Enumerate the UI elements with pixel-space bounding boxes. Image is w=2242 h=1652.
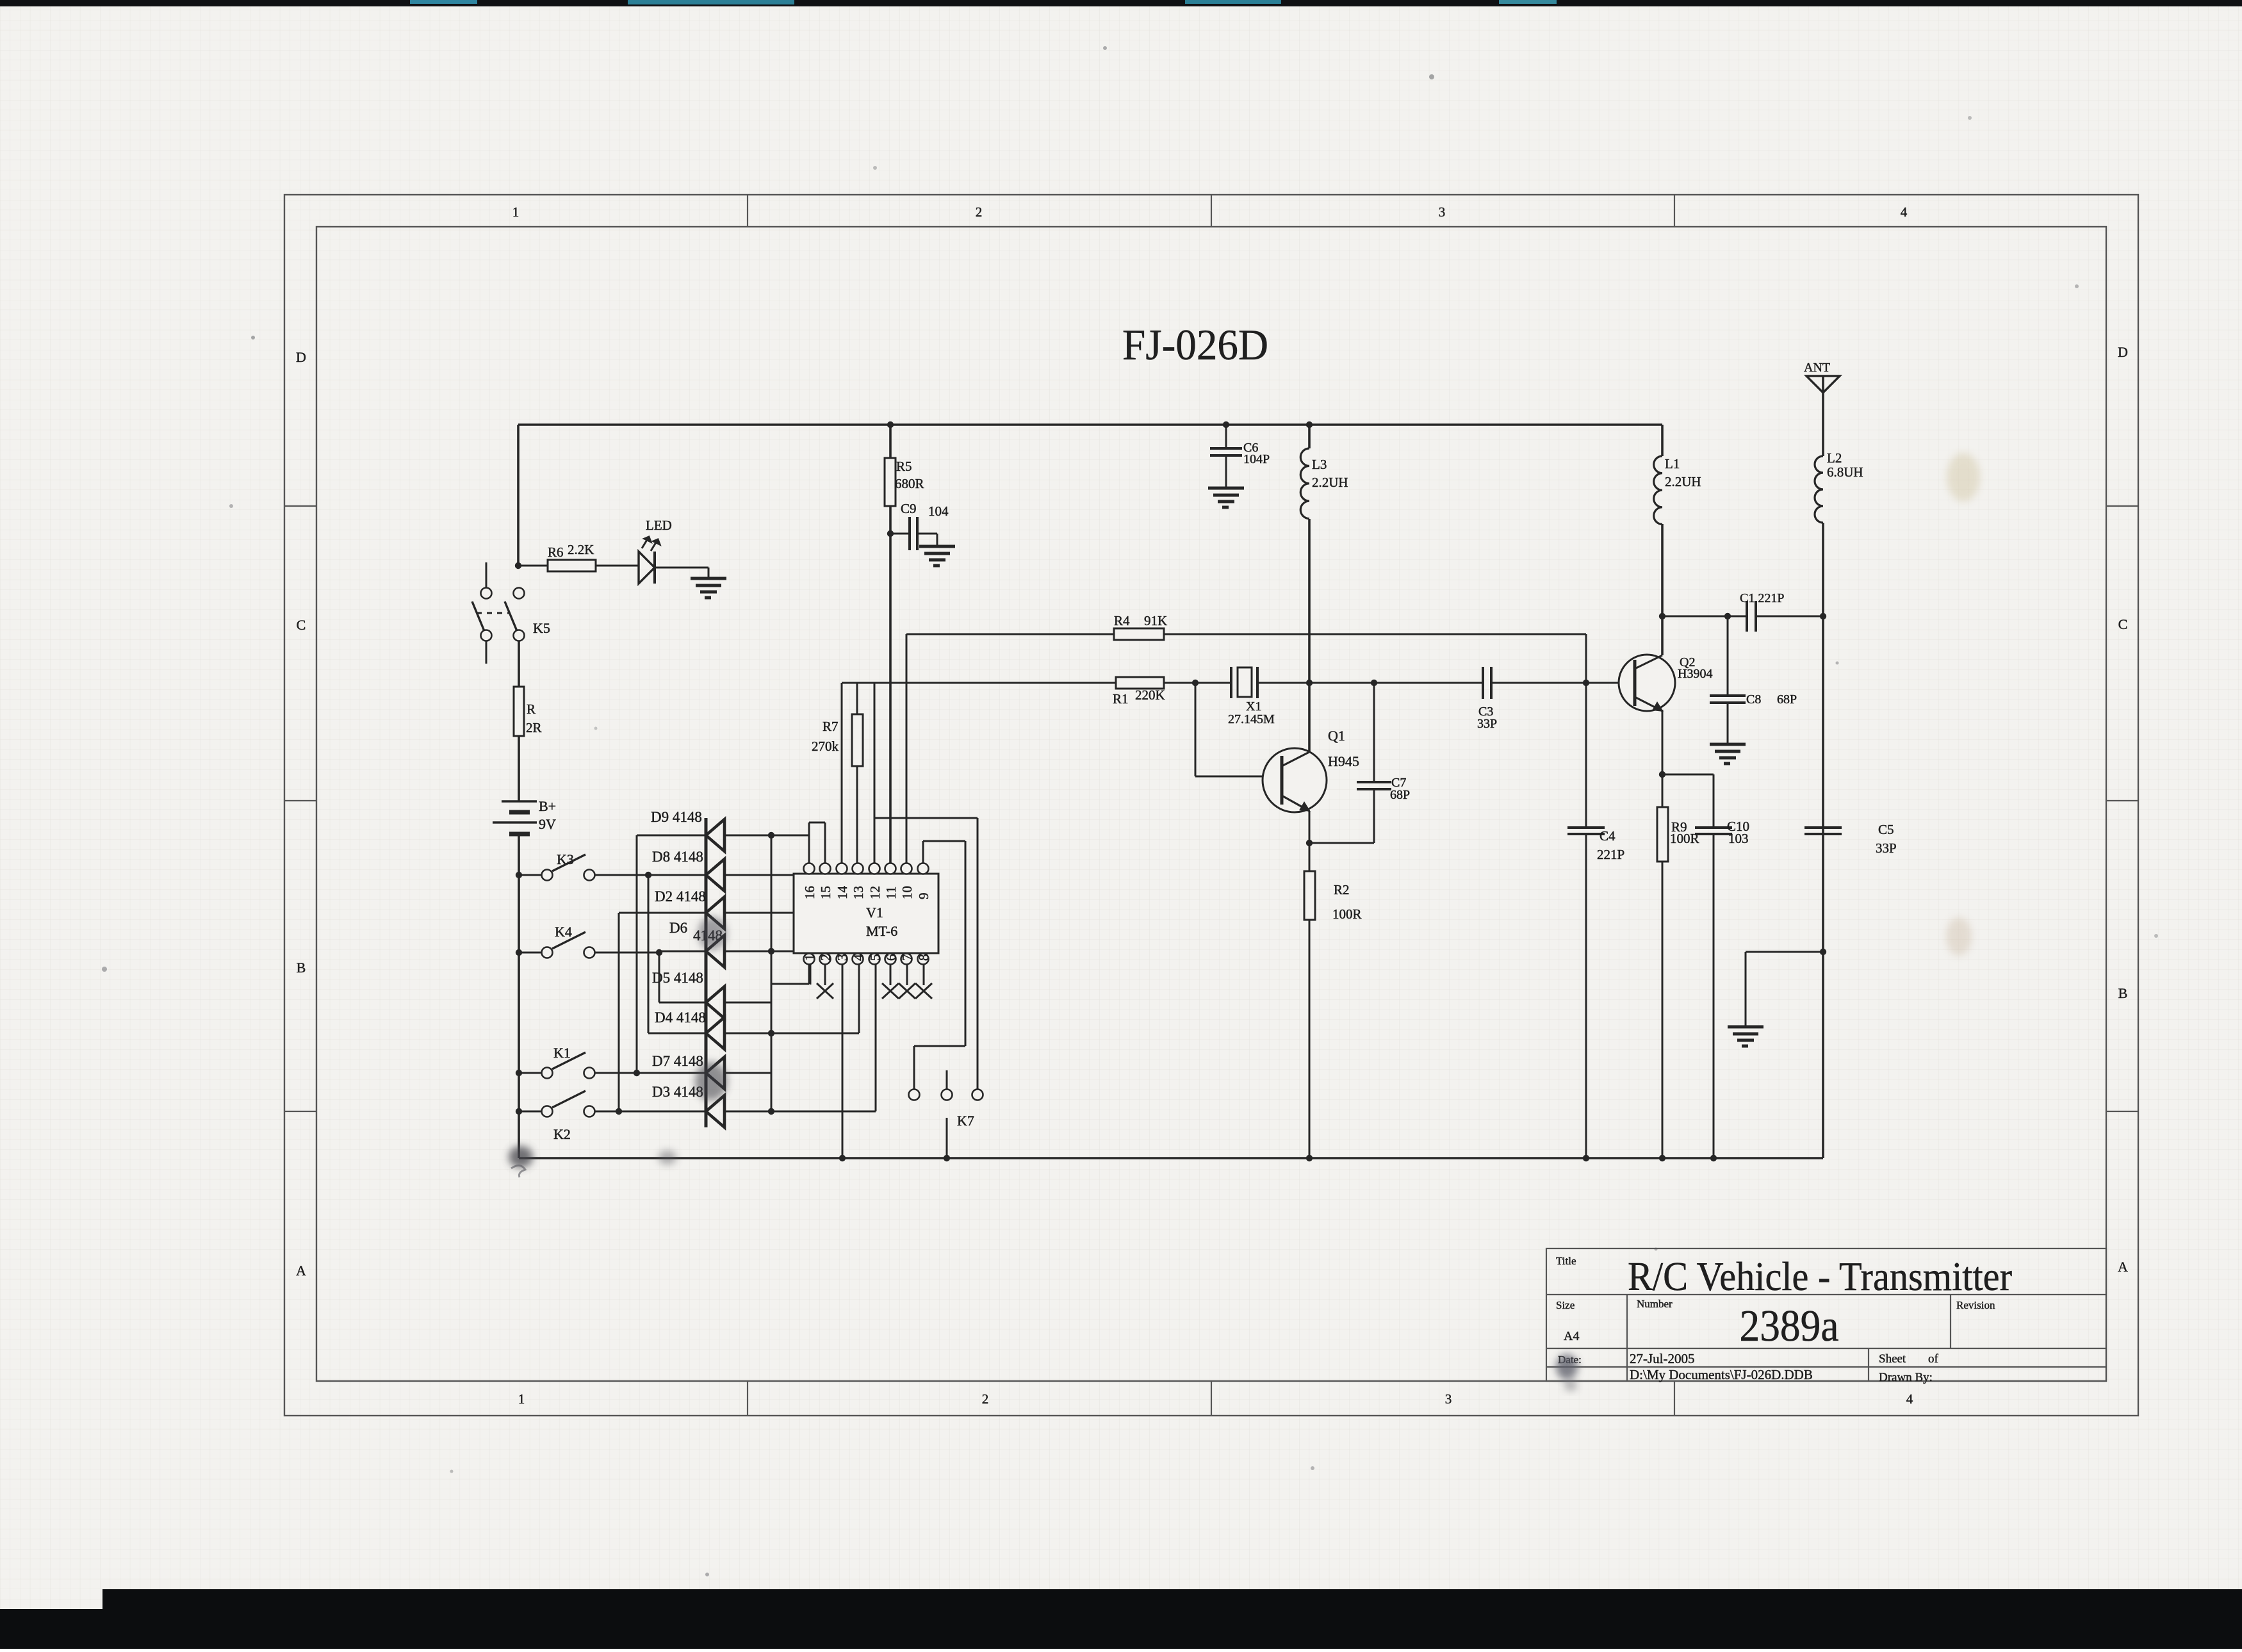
svg-text:ANT: ANT [1804,361,1830,375]
scan stain over D6 [698,917,726,950]
ink smudge on Date cell [1556,1354,1578,1380]
svg-text:9V: 9V [539,816,556,832]
wire D2-to-K2 vertical [618,913,620,1111]
wire nc pin stub [906,964,908,985]
svg-text:B+: B+ [539,798,556,814]
node D4 bus [768,1030,774,1036]
wire pin1 stub [808,964,810,984]
wire to R6 [518,565,548,567]
IC top pin 9 circle [918,863,929,874]
svg-text:91K: 91K [1144,613,1167,628]
node K4/D6 branch [656,949,662,956]
inner border frame [316,227,2106,1381]
node R5 top on rail [887,421,894,428]
resistor R9 [1657,807,1668,862]
resistor R2 [1304,871,1315,920]
svg-text:A: A [296,1263,306,1279]
wire D2 row left [619,912,706,914]
top scan bar [0,0,2242,6]
svg-text:12: 12 [867,886,883,899]
battery B+ 9V [493,801,537,834]
wire to K3 pole [519,874,541,876]
wire C1 net right [1756,616,1823,617]
IC top pin 10 circle [901,863,912,874]
K3 contact circle right [584,870,595,881]
svg-text:8: 8 [916,954,931,961]
svg-text:D: D [296,349,306,365]
wire emitter to C7 bottom [1309,842,1374,844]
svg-text:R7: R7 [822,719,839,734]
wire C4 branch down [1585,634,1587,828]
svg-text:100R: 100R [1670,831,1699,846]
smudge on rail [659,1150,676,1165]
K5 bottom contact left [481,630,492,641]
wire rail drop to K5 node [517,425,520,566]
diode D4 1N4148 [706,1017,724,1049]
svg-text:6: 6 [883,954,899,961]
K4 contact circle right [584,947,595,958]
svg-text:680R: 680R [895,476,924,491]
wire R7 top lead [856,683,858,714]
node C8 branch [1724,613,1731,619]
wire K3/D8 row [594,874,706,876]
IC top pin 13 circle [853,863,863,874]
svg-text:4: 4 [851,954,866,961]
svg-text:K3: K3 [557,851,574,867]
svg-text:15: 15 [818,886,833,899]
small smudge under Date [1564,1380,1577,1391]
wire R4 net to pin10 [906,634,908,863]
svg-text:221P: 221P [1597,847,1624,862]
resistor R6 [548,560,596,571]
zone tick bottom [1211,1381,1212,1416]
wire pin9 stub [922,841,924,863]
wire C10 to bottom rail [1713,834,1715,1158]
paper stain right [1947,453,1980,502]
wire R7 to pin13 [856,766,858,863]
IC top pin 14 circle [837,863,847,874]
svg-text:L2: L2 [1827,450,1842,466]
capacitor C6 [1210,448,1242,455]
svg-text:2: 2 [818,954,833,961]
wire pin12 branch to K7 [874,817,978,819]
wire Q1 base drop [1195,683,1197,776]
svg-text:2: 2 [982,1391,989,1407]
capacitor C5 [1804,828,1842,834]
transistor Q2 H3904 [1619,655,1675,711]
svg-text:33P: 33P [1477,717,1497,731]
svg-text:B: B [297,960,306,976]
wire ground stem [1745,952,1747,1026]
svg-text:Sheet: Sheet [1879,1352,1906,1366]
wire pin3 to bottom rail [842,964,844,1158]
wire R9 to bottom rail [1662,862,1664,1158]
zone tick right [2106,800,2138,801]
wire LED to ground [655,567,708,569]
node emitter/C7 [1306,840,1313,846]
ground after C9 [919,546,955,566]
svg-text:3: 3 [1445,1391,1452,1407]
svg-text:C: C [297,617,306,633]
IC bottom pin 6 circle [885,954,896,965]
wire to Q1 base [1195,776,1282,778]
svg-text:D5 4148: D5 4148 [652,970,703,986]
node C4 on bottom rail [1583,1155,1589,1161]
wire K1/D7 row [594,1072,706,1074]
svg-text:R6: R6 [548,544,564,560]
K7 middle stub above [946,1070,948,1089]
node battery column / K1 [516,1070,522,1076]
wire pin9 jog right [923,840,965,842]
K5 blade left [472,601,484,631]
IC top pin 11 circle [885,863,896,874]
svg-text:D:\My Documents\FJ-026D.DDB: D:\My Documents\FJ-026D.DDB [1630,1367,1813,1382]
node Q1 collector on X1 net [1306,680,1313,686]
zone tick top [1674,195,1675,227]
ground stem [708,568,710,577]
no-connect mark [882,983,899,999]
wire R4 net right [1164,634,1586,635]
svg-text:Q1: Q1 [1328,728,1345,744]
node R4 branch / C3 net [1583,680,1589,686]
svg-text:2389a: 2389a [1740,1302,1839,1351]
zone tick right [2106,505,2138,507]
wire K4 to D6 node [594,952,659,954]
K4 blade [552,932,585,949]
diode D8 1N4148 [706,859,724,891]
capacitor C3 [1483,667,1491,699]
zone tick bottom [1674,1381,1675,1416]
svg-text:C9: C9 [901,501,917,516]
svg-text:L3: L3 [1312,457,1327,472]
svg-text:33P: 33P [1876,840,1897,856]
node emitter/C10 branch [1659,771,1665,778]
wire nc pin stub [923,964,925,985]
ground under C6 [1208,488,1244,507]
svg-text:11: 11 [883,887,899,899]
wire top supply rail [518,423,1662,426]
K5 blade right [505,601,517,631]
svg-text:Revision: Revision [1956,1299,1995,1311]
svg-text:2.2UH: 2.2UH [1312,475,1348,490]
K5 open contact stub [486,562,487,587]
wire D9-to-K1 vertical [636,835,638,1073]
svg-text:R/C Vehicle - Transmitter: R/C Vehicle - Transmitter [1628,1254,2012,1299]
node battery column / K3 [516,872,522,878]
ground lower right [1728,1027,1763,1046]
wire D9 row left [637,835,706,837]
IC bottom pin 8 circle [918,954,929,965]
outer border frame [284,195,2138,1416]
wire K4-to-D5 vertical [659,953,660,1002]
K3 blade [552,855,585,871]
wire C8 top lead [1727,616,1729,694]
wire rail corner to L1 [1661,425,1664,456]
wire pin12 to R1 corner [874,683,876,863]
svg-text:68P: 68P [1777,692,1797,707]
K1 blade [552,1052,585,1069]
svg-text:C: C [2118,616,2128,632]
svg-text:L1: L1 [1665,456,1680,471]
node C1/antenna line [1820,613,1826,619]
diode D3 1N4148 [706,1095,724,1127]
IC bottom pin 3 circle [837,954,847,965]
node D9 bus [768,832,774,838]
svg-text:D2 4148: D2 4148 [655,888,706,904]
svg-text:Size: Size [1556,1299,1575,1311]
node K7 on bottom rail [944,1155,950,1161]
wire C6 top lead [1225,425,1227,447]
node D2/K2 [616,1108,622,1115]
wire C7 bottom lead [1373,789,1375,843]
svg-text:R1: R1 [1113,691,1129,707]
svg-text:A: A [2118,1259,2128,1275]
wire D3 row to pin5 [724,1111,876,1113]
wire C8 to ground [1727,703,1729,743]
resistor R1 [1116,677,1164,689]
wire R2 to bottom rail [1309,920,1311,1158]
capacitor C7 [1357,782,1391,789]
svg-text:2.2UH: 2.2UH [1665,474,1701,489]
antenna symbol [1806,376,1840,393]
svg-text:K4: K4 [555,924,572,940]
svg-text:2: 2 [976,204,983,220]
svg-text:68P: 68P [1390,788,1410,802]
wire antenna net down to rail end [1822,523,1824,1158]
wire D9 to pin16 bus [724,835,809,837]
wire D2 to IC [724,912,794,914]
svg-text:K7: K7 [957,1113,974,1129]
diode D5 1N4148 [706,986,724,1018]
title block frame [1546,1248,2106,1381]
node R9 on bottom rail [1659,1155,1665,1161]
K1 contact circle right [584,1068,595,1079]
svg-text:1: 1 [518,1391,525,1407]
IC top pin 12 circle [869,863,880,874]
node L1/C1/Q2 [1659,613,1665,619]
wire D5 row left [659,1002,706,1004]
node K3/D8 branch [645,872,651,878]
inductor L3 2.2UH [1300,448,1309,519]
wire L1 to C1 node and Q2 collector [1661,524,1664,655]
IC bottom pin 5 circle [869,954,880,965]
wire down to K7 right contact [977,818,979,1089]
node D3 bus [768,1108,774,1115]
capacitor C10 [1695,828,1732,834]
node C6 on rail [1223,421,1229,428]
wire to K2 pole [519,1111,541,1113]
svg-text:D9 4148: D9 4148 [651,809,702,825]
wire pin2 stub [824,964,826,985]
wire nc pin stub [890,964,892,985]
svg-text:270k: 270k [812,739,839,754]
K2 contact circle right [584,1106,595,1117]
svg-text:V1: V1 [866,904,883,920]
LED D-LED [639,552,655,584]
wire to K1 pole [519,1072,541,1074]
svg-text:R2: R2 [1334,882,1350,897]
wire K3-to-D4 vertical [648,875,650,1033]
wire K2/D3 row [594,1111,706,1113]
svg-text:103: 103 [1728,831,1749,846]
wire C3 to Q2 base [1491,682,1635,684]
wire pin16 stub [808,822,810,863]
svg-text:H945: H945 [1328,753,1359,769]
svg-text:4: 4 [1901,204,1908,220]
K5 bottom contact right [514,630,525,641]
diode D9 1N4148 [706,819,724,851]
node pin3 on bottom rail [839,1155,846,1161]
node C9 junction [887,530,894,537]
svg-text:2.2K: 2.2K [568,542,594,557]
wire bottom common rail [519,1157,1823,1159]
svg-text:D8 4148: D8 4148 [652,849,703,865]
capacitor C8 [1710,696,1746,703]
wire pin15 stub [824,822,826,863]
node C10 on bottom rail [1710,1155,1717,1161]
K7 contact circle right [972,1090,983,1100]
svg-text:16: 16 [802,886,817,899]
wire D6 row left [659,951,706,953]
capacitor C4 [1567,828,1605,834]
wire C7 top lead [1373,683,1375,781]
wire to K4 pole [519,952,541,954]
svg-text:13: 13 [851,886,866,899]
svg-text:R5: R5 [896,459,912,474]
svg-text:K5: K5 [533,620,550,636]
svg-text:7: 7 [899,954,915,961]
node D9/K1 [634,1070,640,1076]
K5 top contact right [514,588,525,599]
K7 contact circle middle [942,1090,953,1100]
svg-text:14: 14 [835,886,850,900]
wire R1/X1 net [842,682,1231,684]
wire D5 row right [724,1002,771,1004]
svg-text:C1 221P: C1 221P [1740,591,1784,605]
svg-text:B: B [2118,985,2128,1001]
svg-text:C8: C8 [1746,692,1761,707]
resistor R7 [852,714,863,766]
wire pin15-pin16 jog [809,822,825,824]
wire K5 to R [518,641,520,687]
wire pin9 drop [965,841,967,1046]
zone tick top [1211,195,1212,227]
wire R6 to LED [596,565,639,567]
wire battery negative to bottom rail [518,835,520,1158]
svg-text:FJ-026D: FJ-026D [1122,320,1268,369]
C9 ground stem [937,534,938,545]
zone tick left [284,505,316,507]
wire ground branch [1746,951,1823,953]
K2 contact circle left [542,1106,553,1117]
no-connect mark [899,983,915,999]
ground after LED [691,578,726,598]
wire L3 to Q1 collector [1308,519,1311,752]
transistor Q1 H945 [1263,748,1327,812]
zone tick top [747,195,748,227]
inductor L2 6.8UH [1815,456,1823,523]
wire C6 to ground [1225,455,1227,487]
wire C10 top lead [1713,774,1715,828]
svg-text:6.8UH: 6.8UH [1827,464,1863,480]
K3 contact circle left [542,870,553,881]
wire pin5 to D3 row [875,964,877,1111]
svg-text:of: of [1928,1352,1939,1366]
svg-text:Title: Title [1556,1255,1576,1267]
wire to C10 [1662,774,1714,776]
wire antenna lead [1822,376,1824,456]
capacitor C1 [1747,601,1756,632]
IC V1 MT-6 body [794,874,938,953]
svg-text:4: 4 [1906,1391,1913,1407]
K4 contact circle left [542,947,553,958]
zone tick left [284,1111,316,1112]
crystal X1 [1231,667,1257,698]
svg-text:2R: 2R [526,720,542,735]
svg-text:1: 1 [512,204,520,220]
K5 unused pole stub [486,641,487,664]
zone tick right [2106,1111,2138,1112]
svg-text:104P: 104P [1243,452,1270,466]
svg-text:27-Jul-2005: 27-Jul-2005 [1630,1351,1695,1366]
svg-text:9: 9 [916,893,931,900]
svg-text:3: 3 [835,954,850,961]
wire D6 drop to pin1 net [810,951,812,985]
svg-text:MT-6: MT-6 [866,923,897,939]
wire to C9 [890,533,910,535]
K7 contact circle left [909,1090,920,1100]
svg-text:D7 4148: D7 4148 [652,1053,703,1069]
wire R to battery [518,736,520,801]
svg-text:100R: 100R [1332,906,1362,922]
no-connect mark [915,983,932,999]
wire D6 row right [724,951,810,953]
svg-text:X1: X1 [1246,699,1261,714]
diode D7 1N4148 [706,1057,724,1089]
resistor R4 [1114,628,1164,640]
node X1 left / Q1 base branch [1192,680,1199,686]
wire matrix bus vertical [771,835,773,1111]
svg-text:27.145M: 27.145M [1228,712,1275,726]
IC bottom pin 2 circle [820,954,831,965]
svg-text:LED: LED [646,518,672,533]
no-connect pin2 [817,983,833,999]
svg-text:Drawn By:: Drawn By: [1879,1371,1933,1384]
svg-text:H3904: H3904 [1678,667,1712,681]
svg-text:A4: A4 [1564,1329,1579,1343]
K2 blade [552,1091,585,1108]
diode D6 1N4148 [706,935,724,967]
wire pin14 to R1 bus [841,683,843,863]
svg-text:D: D [2118,344,2128,360]
IC bottom pin 4 circle [853,954,863,965]
node L3 on rail [1306,421,1313,428]
IC top pin 16 circle [804,863,815,874]
wire Q2 emitter to R9 [1662,710,1664,807]
wire D4 row to pin4 [724,1033,859,1035]
node battery column / K4 [516,949,522,956]
LED arrows [642,537,660,551]
svg-text:R4: R4 [1114,613,1130,628]
wire C1 net left [1662,616,1747,617]
svg-text:C4: C4 [1600,828,1616,844]
svg-text:Number: Number [1637,1298,1673,1310]
wire to K7 left contact [913,1046,915,1089]
scan stain over D7/D3 [695,1062,727,1100]
wire L3/Q1 collector from rail [1308,425,1311,448]
node battery column / K2 [516,1108,522,1115]
svg-text:10: 10 [899,886,915,899]
